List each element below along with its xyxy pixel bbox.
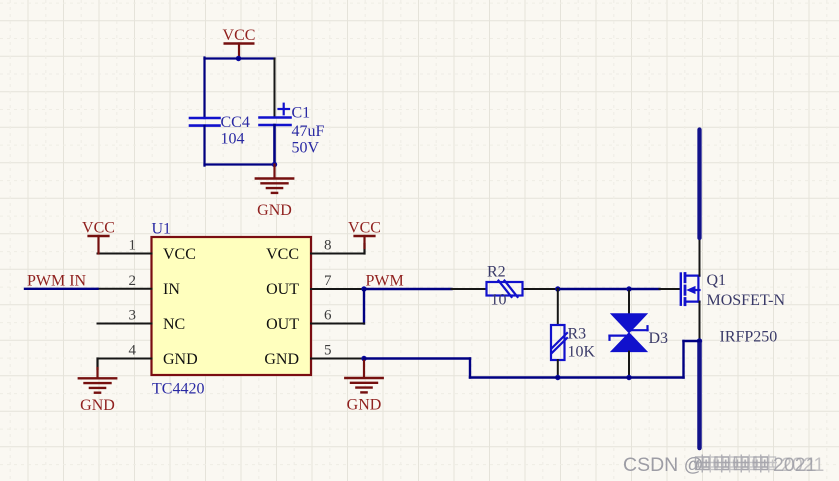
svg-text:GND: GND: [163, 351, 198, 368]
svg-text:2: 2: [129, 273, 137, 289]
svg-text:VCC: VCC: [82, 220, 115, 237]
svg-text:7: 7: [324, 273, 332, 289]
svg-text:3: 3: [129, 308, 137, 324]
node source junction: [697, 338, 702, 343]
wire pin8 riser: [363, 244, 365, 254]
svg-text:CC4: CC4: [221, 114, 250, 131]
svg-text:VCC: VCC: [266, 246, 299, 263]
pin 5 (GND): [311, 343, 364, 359]
ground GND (top section): [256, 165, 293, 220]
svg-text:IRFP250: IRFP250: [720, 329, 778, 346]
wire gate net D3 to Q1: [629, 288, 660, 290]
wire PWM net pin7 to R2: [364, 288, 452, 290]
svg-text:4: 4: [129, 343, 137, 359]
pin 3 (NC): [98, 308, 152, 324]
pin 1 (VCC): [98, 238, 152, 254]
node pin7 junction: [361, 286, 366, 291]
wire drain bus (thick): [697, 130, 701, 239]
wire pin7 to pin6 tie: [363, 289, 365, 324]
pin 2 (IN): [98, 273, 152, 289]
svg-text:PWM: PWM: [366, 273, 404, 290]
svg-text:50V: 50V: [292, 139, 320, 156]
svg-text:MOSFET-N: MOSFET-N: [707, 292, 786, 309]
svg-text:8: 8: [324, 238, 332, 254]
svg-text:VCC: VCC: [163, 246, 196, 263]
pin 6 (OUT): [311, 308, 364, 324]
transistor Q1 MOSFET-N: [660, 272, 786, 346]
capacitor C1 (polarized): [260, 104, 325, 157]
svg-text:GND: GND: [347, 397, 382, 414]
ground GND (pin 5): [345, 378, 382, 414]
diode D3 (bidirectional TVS): [610, 289, 669, 378]
wire bottom rail of cap pair: [205, 163, 275, 165]
svg-text:GND: GND: [257, 202, 292, 219]
svg-text:CSDN @: CSDN @: [623, 454, 703, 476]
node D3 top junction: [626, 286, 631, 291]
svg-text:IN: IN: [163, 281, 180, 298]
svg-text:GND: GND: [80, 397, 115, 414]
pin 8 (VCC): [311, 238, 365, 254]
svg-text:OUT: OUT: [266, 316, 299, 333]
wire C1 right branch lower segment: [273, 125, 276, 165]
node bottom cap junction: [272, 162, 277, 167]
svg-text:NC: NC: [163, 316, 185, 333]
node R2/R3 junction: [555, 286, 560, 291]
U1 right pin name labels: [264, 246, 299, 368]
pin Q1 source: [699, 302, 701, 341]
wire source feedback loop: [684, 341, 700, 378]
power symbol VCC (pin 1): [82, 220, 115, 254]
svg-text:D3: D3: [649, 330, 669, 347]
node VCC top junction: [236, 56, 241, 61]
watermark (decorative): [623, 454, 703, 476]
svg-text:R3: R3: [568, 326, 587, 343]
wire CC4 left branch lower segment: [203, 126, 205, 166]
ground GND (pin 4): [79, 378, 116, 414]
svg-text:2021: 2021: [781, 454, 824, 476]
pin 4 (GND): [98, 343, 152, 359]
wire C1 right branch upper segment (pin): [274, 59, 276, 118]
power symbol VCC (top, above C1/CC4): [223, 27, 256, 59]
svg-text:10: 10: [491, 291, 507, 308]
svg-text:C1: C1: [292, 105, 311, 122]
svg-text:6: 6: [324, 308, 332, 324]
node label PWM: [366, 273, 404, 290]
wire bottom return rail: [364, 359, 684, 378]
resistor R2: [452, 264, 558, 309]
svg-text:OUT: OUT: [266, 281, 299, 298]
svg-text:104: 104: [221, 131, 245, 148]
svg-text:VCC: VCC: [348, 220, 381, 237]
U1 left pin name labels: [163, 246, 198, 368]
power symbol VCC (pin 8): [348, 220, 381, 249]
node pin5 junction: [361, 356, 366, 361]
pin 7 (OUT): [311, 273, 364, 289]
svg-text:47uF: 47uF: [292, 123, 325, 140]
svg-text:R2: R2: [487, 264, 506, 281]
node R3 bottom junction: [555, 375, 560, 380]
capacitor CC4: [190, 114, 250, 148]
svg-text:TC4420: TC4420: [152, 381, 204, 398]
svg-text:5: 5: [324, 343, 332, 359]
node label PWM_IN: [27, 273, 87, 290]
wire CC4 left branch upper segment: [203, 58, 205, 119]
svg-text:10K: 10K: [568, 344, 596, 361]
svg-text:U1: U1: [152, 221, 172, 238]
svg-text:Q1: Q1: [707, 272, 727, 289]
resistor R3: [551, 289, 596, 378]
wire pin4 to ground: [96, 359, 98, 379]
svg-text:1: 1: [129, 238, 137, 254]
svg-text:PWM IN: PWM IN: [27, 273, 87, 290]
node D3 bottom junction: [626, 375, 631, 380]
svg-text:GND: GND: [264, 351, 299, 368]
wire top rail between CC4 and C1 branches: [205, 57, 275, 59]
wire R2 junction to D3 junction: [558, 288, 629, 290]
wire pin5 to ground: [363, 359, 365, 378]
pin Q1 drain: [699, 238, 701, 276]
svg-text:VCC: VCC: [223, 27, 256, 44]
wire source bus (thick): [697, 341, 702, 448]
op-amp/driver U1 TC4420 body: [152, 221, 312, 398]
wire PWM_IN input: [25, 288, 98, 290]
